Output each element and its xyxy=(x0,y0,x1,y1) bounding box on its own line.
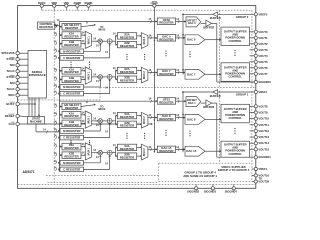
wire DAC 8 register to DAC 8 xyxy=(176,117,185,119)
serial interface block xyxy=(28,51,47,99)
wire bus to OFS1 register xyxy=(60,100,158,102)
svg-text:SIGGND3: SIGGND3 xyxy=(204,189,217,193)
bus stub to X1B register xyxy=(60,122,63,124)
VREF1 rail junction at DAC 15 xyxy=(182,149,184,151)
bus stub to X1A register xyxy=(60,146,63,148)
svg-text:ARE SAME AS GROUP 1: ARE SAME AS GROUP 1 xyxy=(183,174,217,178)
svg-text:VOUT13: VOUT13 xyxy=(258,135,269,139)
wire mux1 to multiplier xyxy=(92,152,99,154)
svg-text:SIGGND0: SIGGND0 xyxy=(258,80,271,84)
svg-text:REGISTER: REGISTER xyxy=(64,155,78,159)
ellipsis dots (mux2 group 1) xyxy=(144,133,145,134)
pin DGND (top) xyxy=(88,7,90,10)
bus stub to X1B register xyxy=(60,154,63,156)
svg-text:SYNC: SYNC xyxy=(6,57,15,61)
DAC 0 xyxy=(185,35,205,45)
wire X1B to mux1 xyxy=(81,154,85,156)
bus stub to M register xyxy=(59,50,62,52)
group 1 dashed box left edge xyxy=(218,91,220,163)
LDAC wire (vertical) xyxy=(153,7,155,152)
pin VOUT5 (right) xyxy=(250,61,255,63)
pin SCLK (left) xyxy=(16,70,19,73)
pin SIGGND1 (right) xyxy=(250,156,255,158)
pin VOUT15 (right) xyxy=(250,148,255,150)
svg-text:SDI: SDI xyxy=(10,63,15,67)
svg-text:VREF1: VREF1 xyxy=(258,90,267,94)
register X2A (DAC 8) xyxy=(117,112,136,118)
bus stub to X1B register xyxy=(60,43,63,45)
bus stub to M register xyxy=(59,130,62,132)
svg-text:GROUP 2 TO GROUP 4: GROUP 2 TO GROUP 4 xyxy=(218,168,250,172)
svg-text:REGISTER: REGISTER xyxy=(120,115,134,119)
LDAC stub to DAC 8 register xyxy=(154,119,155,120)
pin SDO (left) xyxy=(16,94,19,97)
wire adder to X2 registers xyxy=(112,76,115,78)
wire CLR xyxy=(19,123,152,125)
multiplier (DAC 0) xyxy=(98,39,102,43)
pin LDAC (top) xyxy=(153,4,156,7)
ellipsis dots (output buffers group 1) xyxy=(234,128,235,129)
output buffer block (VOUT7) xyxy=(221,63,250,82)
bus stub to X1A register xyxy=(60,70,63,72)
register X2A (DAC 7) xyxy=(117,67,136,73)
multiplier (DAC 8) xyxy=(98,119,102,123)
AGND rail dashed (bottom) xyxy=(18,183,256,185)
offset DAC 1 buffer xyxy=(206,100,212,106)
mux2 (DAC 0) xyxy=(141,33,148,49)
LDAC stub to DAC 0 register xyxy=(154,40,155,41)
register X2B (DAC 15) xyxy=(117,153,136,159)
svg-text:VOUT11: VOUT11 xyxy=(258,123,269,127)
pin VOUT10 (right) xyxy=(250,118,255,120)
wire X1B to mux1 xyxy=(81,78,85,80)
wire DAC 7 register to DAC 7 xyxy=(176,72,185,74)
pin DVCC (top) xyxy=(41,7,43,10)
svg-text:VOUT4: VOUT4 xyxy=(258,54,268,58)
mux1 (DAC 0) xyxy=(85,31,91,48)
svg-text:SDO: SDO xyxy=(8,93,15,97)
pin VOUT16 (right) xyxy=(252,175,254,177)
wire mux1 to multiplier xyxy=(92,120,99,122)
A/B select register (group of DAC 8) xyxy=(62,103,81,110)
wire X2A to mux2 xyxy=(137,70,142,72)
ellipsis dots (DACs group 1) xyxy=(189,130,190,131)
dashed line above bottom left xyxy=(46,174,159,176)
svg-text:SIGGND4: SIGGND4 xyxy=(225,189,238,193)
svg-text:M REGISTER: M REGISTER xyxy=(63,129,80,133)
wire VREF1 xyxy=(218,91,255,93)
svg-text:REGISTER: REGISTER xyxy=(159,21,173,25)
wire bus to OFS0 register xyxy=(60,21,158,23)
svg-text:REGISTER: REGISTER xyxy=(120,124,134,128)
svg-text:VOUT5: VOUT5 xyxy=(258,60,268,64)
pin VREF1 (right) xyxy=(252,168,254,170)
ellipsis dots (DAC registers group 1) xyxy=(165,130,166,131)
mux1 (DAC 8) xyxy=(85,111,91,128)
svg-text:BUFFER: BUFFER xyxy=(203,105,214,109)
ellipsis dots (mux1 group 0) xyxy=(89,62,90,63)
group 0 dashed box right edge xyxy=(251,10,253,87)
pin VOUT8 (right) xyxy=(250,105,255,107)
DAC 8 xyxy=(185,115,205,125)
svg-text:CONTROL: CONTROL xyxy=(229,75,243,79)
svg-text:BUFFER: BUFFER xyxy=(210,94,221,98)
pin VOUT4 (right) xyxy=(250,55,255,57)
svg-text:MUX 2: MUX 2 xyxy=(143,148,146,156)
svg-text:DAC 1: DAC 1 xyxy=(188,101,196,105)
register X2B (DAC 7) xyxy=(117,76,136,82)
register M (DAC 15) xyxy=(60,161,84,166)
VDD rail dashed (vertical) xyxy=(53,10,55,184)
bus stub to X1A register xyxy=(60,34,63,36)
mux1 (DAC 7) xyxy=(85,67,91,84)
group 1 dashed box right edge xyxy=(251,91,253,163)
svg-text:VREF1: VREF1 xyxy=(258,167,267,171)
pin VOUT7 (right) xyxy=(250,73,255,75)
svg-text:VOUT7: VOUT7 xyxy=(258,72,268,76)
register X1A (DAC 0) xyxy=(62,32,81,39)
pin VOUT6 (right) xyxy=(250,67,255,69)
VREF0 rail xyxy=(183,13,213,15)
svg-text:VOUT2: VOUT2 xyxy=(258,42,268,46)
svg-text:VOUT10: VOUT10 xyxy=(258,117,269,121)
wire DAC 8 to output buffer xyxy=(205,118,221,120)
ellipsis dots (registers group 0) xyxy=(70,62,71,63)
wire C register to adder xyxy=(84,93,110,95)
svg-text:REGISTER: REGISTER xyxy=(120,147,134,151)
ellipsis dots (output buffers group 0) xyxy=(234,50,235,51)
svg-text:REGISTER: REGISTER xyxy=(65,26,78,30)
svg-text:REGISTER: REGISTER xyxy=(159,100,173,104)
svg-text:REGISTER: REGISTER xyxy=(159,72,173,76)
LDAC stub to DAC 15 register xyxy=(154,151,155,152)
svg-text:INTERFACE: INTERFACE xyxy=(29,73,46,77)
pin VOUT14 (right) xyxy=(250,142,255,144)
svg-text:DAC 7: DAC 7 xyxy=(187,72,196,76)
wire DAC 0 to output buffer xyxy=(205,39,221,41)
wire C register to adder xyxy=(84,137,110,139)
svg-text:SIGGND2: SIGGND2 xyxy=(187,189,200,193)
wire X2B to mux2 xyxy=(137,123,142,125)
adder (DAC 15) xyxy=(107,150,112,155)
group separator dashed left part xyxy=(18,99,100,101)
svg-text:SDI: SDI xyxy=(10,81,15,85)
svg-text:MUX2: MUX2 xyxy=(98,108,106,111)
DAC 7 xyxy=(185,69,205,79)
svg-text:REGISTER: REGISTER xyxy=(39,25,53,29)
svg-text:VOUT8: VOUT8 xyxy=(258,104,268,108)
group 0 dashed box left edge xyxy=(218,10,220,87)
svg-text:CLR: CLR xyxy=(9,122,16,126)
wire M register to multiplier xyxy=(84,50,101,52)
wire offset DAC 1 to buffer xyxy=(201,102,206,104)
svg-text:VOUT39: VOUT39 xyxy=(258,180,269,184)
bus stub to X1B register xyxy=(60,78,63,80)
svg-text:VDD: VDD xyxy=(51,1,57,5)
control register block xyxy=(38,22,55,29)
wire multiplier to adder xyxy=(102,76,107,78)
DAC 15 xyxy=(185,146,205,156)
wire mux2 to DAC 0 register xyxy=(148,37,157,39)
svg-text:C REGISTER: C REGISTER xyxy=(63,56,80,60)
svg-text:VOUT9: VOUT9 xyxy=(258,111,268,115)
state machine block xyxy=(28,117,45,125)
VREF0 rail junction at DAC 0 xyxy=(182,34,184,36)
group separator dashed riser xyxy=(99,87,101,100)
OFS0 register xyxy=(157,18,175,25)
svg-text:VOUT6: VOUT6 xyxy=(258,66,268,70)
pin SDI (left) xyxy=(16,63,19,66)
svg-text:REGISTER: REGISTER xyxy=(120,35,134,39)
bus stub to M register xyxy=(59,162,62,164)
svg-text:MUX 2: MUX 2 xyxy=(143,36,146,44)
power rail dashed (top) xyxy=(42,9,252,11)
pin VOUT9 (right) xyxy=(250,112,255,114)
wire DAC 15 register to DAC 15 xyxy=(176,148,185,150)
svg-text:DAC 0: DAC 0 xyxy=(187,38,196,42)
pin VOUT0 (right) xyxy=(250,31,255,33)
wire A/B select to MUX2 annotation xyxy=(81,25,95,27)
svg-text:REGISTER: REGISTER xyxy=(64,35,78,39)
svg-text:VREF0: VREF0 xyxy=(258,12,267,16)
svg-text:BUFFER: BUFFER xyxy=(203,26,214,30)
svg-text:DGND: DGND xyxy=(85,1,93,5)
bus stub to C register xyxy=(59,57,62,59)
svg-text:MUX 1: MUX 1 xyxy=(87,36,90,44)
svg-text:VOUT15: VOUT15 xyxy=(258,147,269,151)
wire adder to X2 registers xyxy=(112,40,115,42)
svg-text:CONTROL: CONTROL xyxy=(229,152,243,156)
pin VSS (top) xyxy=(65,7,67,10)
wire C register to adder xyxy=(84,168,110,170)
wire VREF0 xyxy=(218,13,255,15)
bus stub to C register xyxy=(59,168,62,170)
pin SDI (left) xyxy=(16,82,19,85)
group separator dashed right part xyxy=(100,86,256,88)
svg-text:C REGISTER: C REGISTER xyxy=(63,136,80,140)
svg-text:AGND: AGND xyxy=(73,1,81,5)
pin AGND (top) xyxy=(76,7,78,10)
svg-text:REGISTER: REGISTER xyxy=(64,43,78,47)
VREF1 rail junction at DAC 8 xyxy=(182,114,184,116)
wire adder to X2 registers xyxy=(112,152,115,154)
register X2B (DAC 0) xyxy=(117,41,136,47)
svg-text:DAC 15: DAC 15 xyxy=(186,149,196,153)
register X2B (DAC 8) xyxy=(117,121,136,127)
wire M register to multiplier xyxy=(84,162,101,164)
wire offset buffer 1 to SIGGND1 xyxy=(212,102,217,104)
register X2A (DAC 0) xyxy=(117,33,136,39)
offset DAC 1 xyxy=(186,97,201,107)
svg-text:SPI/LVDS: SPI/LVDS xyxy=(1,51,14,55)
adder (DAC 8) xyxy=(107,119,112,124)
register X1A (DAC 8) xyxy=(62,112,81,119)
A/B select register (group of DAC 0) xyxy=(62,24,81,31)
wire X2B to mux2 xyxy=(137,78,142,80)
mux1 (DAC 15) xyxy=(85,143,91,160)
register X1B (DAC 7) xyxy=(62,76,81,83)
svg-text:VOUT1: VOUT1 xyxy=(258,36,268,40)
chip outline AD5371 xyxy=(18,6,256,189)
wire pin to serial interface xyxy=(19,82,28,84)
offset DAC 0 xyxy=(186,17,201,27)
ellipsis dots (mux1 group 1) xyxy=(89,140,90,141)
wire X2B to mux2 xyxy=(137,44,142,46)
register M (DAC 7) xyxy=(60,85,84,90)
wire X1A to mux1 xyxy=(81,34,85,36)
wire X1A to mux1 xyxy=(81,114,85,116)
register M (DAC 8) xyxy=(60,129,84,134)
wire DAC 15 to output buffer xyxy=(205,150,221,152)
pin SIGGND0 (right) xyxy=(250,81,255,83)
svg-text:VOUT12: VOUT12 xyxy=(258,129,269,133)
adder (DAC 7) xyxy=(107,75,112,80)
wire offset DAC 0 to buffer xyxy=(201,22,206,24)
wire pin to serial interface xyxy=(19,76,28,78)
svg-text:GROUP 1: GROUP 1 xyxy=(236,93,249,97)
OFS1 register xyxy=(157,98,175,105)
dashed line above bottom left lower xyxy=(48,181,159,183)
wire A/B select to MUX2 annotation xyxy=(81,105,95,107)
svg-text:MUX 1: MUX 1 xyxy=(87,71,90,79)
VREF1 buffer xyxy=(213,90,218,95)
svg-text:REGISTER: REGISTER xyxy=(64,79,78,83)
svg-text:M REGISTER: M REGISTER xyxy=(63,161,80,165)
svg-text:C REGISTER: C REGISTER xyxy=(63,92,80,96)
LDAC stub to DAC 7 register xyxy=(154,74,155,75)
bus stub to A/B select register xyxy=(60,106,63,108)
DAC 8 register xyxy=(157,114,175,121)
pin VDD (top) xyxy=(53,7,55,10)
svg-text:DAC 0: DAC 0 xyxy=(188,21,196,25)
pin SCLK (left) xyxy=(16,88,19,91)
pin SYNC (left) xyxy=(16,58,19,61)
offset DAC 0 buffer xyxy=(206,20,212,26)
wire mux1 to multiplier xyxy=(92,40,99,42)
wire pin to serial interface xyxy=(19,52,28,54)
pin RESET (left) xyxy=(16,114,19,117)
wire X2A to mux2 xyxy=(137,35,142,37)
ellipsis dots (X2 group 0) xyxy=(126,54,127,55)
svg-text:MUX 1: MUX 1 xyxy=(87,147,90,155)
wire multiplier to adder xyxy=(102,40,107,42)
wire X1A to mux1 xyxy=(81,146,85,148)
VREF0 rail junction at DAC 7 xyxy=(182,69,184,71)
group 1 dashed box bottom edge xyxy=(159,162,252,164)
wire bus to control register xyxy=(55,25,60,27)
svg-text:VOUT0: VOUT0 xyxy=(258,30,268,34)
svg-text:REGISTER: REGISTER xyxy=(120,79,134,83)
DAC 7 register xyxy=(157,69,175,76)
svg-text:REGISTER: REGISTER xyxy=(120,156,134,160)
multiplier (DAC 15) xyxy=(98,151,102,155)
wire pin to serial interface xyxy=(19,64,28,66)
white background xyxy=(0,0,280,195)
svg-text:VOUT3: VOUT3 xyxy=(258,48,268,52)
wire mux2 to DAC 7 register xyxy=(148,72,157,74)
wire pin to serial interface xyxy=(19,88,28,90)
pin VREF1 (right) xyxy=(254,90,257,93)
wire pin to serial interface xyxy=(19,58,28,60)
mux2 (DAC 15) xyxy=(141,144,148,160)
adder (DAC 0) xyxy=(107,39,112,44)
svg-text:MACHINE: MACHINE xyxy=(30,120,42,124)
pin VOUT3 (right) xyxy=(250,49,255,51)
register X2A (DAC 15) xyxy=(117,144,136,150)
svg-text:MUX 2: MUX 2 xyxy=(143,71,146,79)
pin SYNC (left) xyxy=(16,76,19,79)
multiplier (DAC 7) xyxy=(98,75,102,79)
bus stub to X1A register xyxy=(60,114,63,116)
wire mux2 to DAC 15 register xyxy=(148,148,157,150)
svg-text:REGISTER: REGISTER xyxy=(120,44,134,48)
svg-text:MUX 2: MUX 2 xyxy=(143,116,146,124)
svg-text:REGISTER: REGISTER xyxy=(64,114,78,118)
wire C register to adder xyxy=(84,57,110,59)
wire X1B to mux1 xyxy=(81,122,85,124)
wire RESET to state machine xyxy=(19,115,27,118)
svg-text:VSS: VSS xyxy=(64,1,70,5)
wire X1A to mux1 xyxy=(81,70,85,72)
wire multiplier to adder xyxy=(102,120,107,122)
wire mux1 to multiplier xyxy=(92,76,99,78)
register X1B (DAC 0) xyxy=(62,40,81,47)
pin VOUT13 (right) xyxy=(250,136,255,138)
register M (DAC 0) xyxy=(60,49,84,54)
pin SPI/LVDS (left) xyxy=(16,52,19,55)
wire DAC 7 to output buffer xyxy=(205,73,221,75)
svg-text:M REGISTER: M REGISTER xyxy=(63,85,80,89)
svg-text:CONTROL: CONTROL xyxy=(229,39,243,43)
svg-text:SCLK: SCLK xyxy=(7,69,16,73)
svg-text:REGISTER: REGISTER xyxy=(120,70,134,74)
svg-text:C REGISTER: C REGISTER xyxy=(63,167,80,171)
register X1A (DAC 7) xyxy=(62,68,81,75)
wire pin to serial interface xyxy=(19,94,28,96)
svg-text:REGISTER: REGISTER xyxy=(159,117,173,121)
mux2 (DAC 7) xyxy=(141,67,148,83)
wire X2A to mux2 xyxy=(137,146,142,148)
wire offset buffer 0 to SIGGND0 xyxy=(212,22,217,24)
data bus (vertical) xyxy=(59,22,61,172)
svg-text:REGISTER: REGISTER xyxy=(64,123,78,127)
svg-text:RESET: RESET xyxy=(5,114,15,118)
pin VOUT11 (right) xyxy=(250,124,255,126)
register C (DAC 8) xyxy=(60,135,84,140)
wire multiplier to adder xyxy=(102,152,107,154)
register C (DAC 0) xyxy=(60,56,84,61)
wire adder to X2 registers xyxy=(112,120,115,122)
svg-text:AD5371: AD5371 xyxy=(22,170,34,174)
svg-text:REGISTER: REGISTER xyxy=(64,146,78,150)
wire M register to multiplier xyxy=(84,86,101,88)
mux2 (DAC 8) xyxy=(141,112,148,128)
wire X1B to mux1 xyxy=(81,43,85,45)
wire pin to serial interface xyxy=(19,70,28,72)
wire M register to multiplier xyxy=(84,130,101,132)
groups 2-4 dashed box xyxy=(158,163,160,181)
pin CLR (left) xyxy=(16,122,19,125)
svg-text:BUSY: BUSY xyxy=(6,102,14,106)
wires serial interface to state machine xyxy=(28,98,30,117)
register X1B (DAC 15) xyxy=(62,152,81,159)
wire DAC 0 register to DAC 0 xyxy=(176,37,185,39)
bus stub to C register xyxy=(59,93,62,95)
bus stub to A/B select register xyxy=(60,26,63,28)
svg-text:SIGGND1: SIGGND1 xyxy=(258,155,271,159)
pin SIGGND3 (bottom) xyxy=(212,184,214,186)
ellipsis dots (DACs group 0) xyxy=(189,51,190,52)
